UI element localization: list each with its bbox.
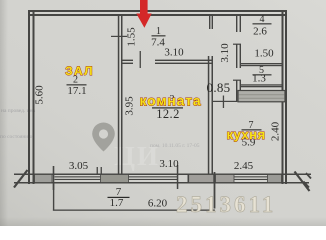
door tick room 4 xyxy=(233,44,241,45)
window tick xyxy=(177,165,179,189)
window 1 glazing lines xyxy=(55,176,101,177)
kitchen door tick xyxy=(223,96,224,109)
left wall outer line xyxy=(28,10,30,184)
balcony left edge xyxy=(53,184,54,211)
svg-text:ЦИ: ЦИ xyxy=(114,141,160,171)
small box edge xyxy=(188,175,189,183)
svg-text:7.4: 7.4 xyxy=(151,37,165,49)
ventilation shaft xyxy=(238,91,285,102)
paper shading bottom edge xyxy=(0,217,326,226)
room 3 underline xyxy=(152,107,183,108)
door tick room 5 xyxy=(233,80,241,81)
room 2 underline xyxy=(67,84,87,85)
shaft hatch line 1 xyxy=(239,93,285,96)
svg-text:1.50: 1.50 xyxy=(254,48,274,60)
break arrow mark right top xyxy=(306,173,311,179)
shaft hatch line 2 xyxy=(239,97,285,100)
svg-text:на провед. инв: на провед. инв xyxy=(1,108,36,114)
bottom wall break slash right xyxy=(295,172,310,192)
bottom wall break slash left xyxy=(14,170,28,188)
pier 4 xyxy=(216,175,235,183)
svg-text:2.45: 2.45 xyxy=(234,160,254,172)
svg-text:по состоянию: по состоянию xyxy=(0,134,32,140)
svg-text:3.95: 3.95 xyxy=(123,96,135,116)
svg-text:2513611: 2513611 xyxy=(176,192,276,217)
svg-text:3.10: 3.10 xyxy=(164,46,184,58)
room 6 underline xyxy=(242,129,262,130)
wall between rooms 4 and 5 xyxy=(241,63,282,64)
svg-text:комната: комната xyxy=(139,93,201,109)
svg-text:3.10: 3.10 xyxy=(159,158,179,170)
pier 2 xyxy=(101,175,129,183)
room 4 underline xyxy=(253,23,272,24)
left wall inner line xyxy=(33,10,35,184)
bottom wall top line xyxy=(14,174,311,176)
balcony bottom line xyxy=(53,210,215,211)
wall room3/kitchen vertical xyxy=(208,56,210,184)
right wall inner line xyxy=(282,10,284,184)
wall rooms 4-5 left, lower segment xyxy=(236,80,237,102)
svg-text:1.7: 1.7 xyxy=(110,197,124,209)
svg-text:12.2: 12.2 xyxy=(156,107,179,121)
svg-text:17.1: 17.1 xyxy=(67,85,86,97)
svg-text:1.55: 1.55 xyxy=(125,27,137,47)
bottom wall bottom line xyxy=(14,182,309,184)
balcony right tick xyxy=(214,172,216,209)
pier 1 xyxy=(35,175,53,183)
top wall inner line xyxy=(28,14,287,16)
svg-text:3.05: 3.05 xyxy=(69,160,89,172)
svg-text:1.3: 1.3 xyxy=(252,73,266,85)
right wall outer line xyxy=(285,10,287,184)
watermark map pin xyxy=(92,123,115,152)
dim tick pair left of pier 2 xyxy=(97,167,98,175)
pier 3 xyxy=(189,175,214,183)
wall rooms 4-5 left, upper segment xyxy=(236,16,237,32)
svg-text:5.60: 5.60 xyxy=(33,85,45,105)
svg-text:0.85: 0.85 xyxy=(207,80,231,95)
entrance arrow shaft xyxy=(140,0,148,14)
watermark pin hole xyxy=(99,129,108,138)
entrance arrow head xyxy=(136,14,151,28)
wall rooms 4-5 left, middle segment xyxy=(236,44,237,68)
svg-text:кухня: кухня xyxy=(226,127,265,142)
svg-text:6.20: 6.20 xyxy=(148,198,168,210)
balcony underline xyxy=(108,197,130,198)
corridor bottom wall segment 2 xyxy=(155,60,212,61)
top wall outer line xyxy=(28,10,287,12)
svg-text:ЗАЛ: ЗАЛ xyxy=(65,64,94,78)
room 5 underline xyxy=(253,74,272,75)
wall below room 5 xyxy=(241,84,282,85)
paper shading left edge xyxy=(0,0,8,226)
balcony door tick xyxy=(53,166,55,190)
room 1 underline xyxy=(152,35,166,36)
wall hall/corridor vertical line A xyxy=(118,16,120,174)
door tick room 3 xyxy=(140,51,141,68)
pier 5 xyxy=(268,175,282,183)
svg-text:2.6: 2.6 xyxy=(253,25,267,37)
svg-text:3.10: 3.10 xyxy=(219,43,231,63)
kitchen door line xyxy=(213,101,236,102)
svg-text:2.40: 2.40 xyxy=(269,121,281,141)
window 2 glazing lines xyxy=(129,176,178,177)
wall hall/corridor vertical line B xyxy=(121,16,123,174)
corridor bottom wall segment 1 xyxy=(123,60,134,61)
window 3 glazing lines xyxy=(234,176,268,177)
break arrow mark right bottom xyxy=(304,182,310,188)
tick on hall wall xyxy=(111,36,127,37)
corridor stub wall xyxy=(209,16,210,29)
